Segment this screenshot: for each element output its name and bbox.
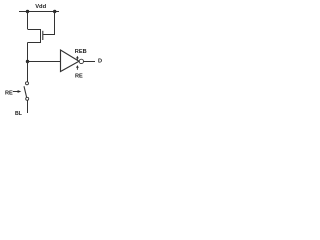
wire Vdd to transistor source: [27, 12, 29, 30]
inverter output bubble: [79, 59, 83, 63]
wire node to switch: [27, 62, 29, 82]
svg-text:D: D: [98, 59, 102, 65]
wire gate to Vdd: [43, 12, 54, 35]
junction dot left: [26, 10, 29, 13]
node junction dot: [26, 60, 29, 63]
switch S1 blade: [24, 86, 27, 97]
enable arrow RE head: [76, 65, 79, 68]
transistor M1 source/channel/drain: [28, 30, 41, 43]
enable arrow REB head: [76, 56, 79, 59]
svg-text:REB: REB: [75, 49, 87, 55]
svg-text:RE: RE: [5, 90, 13, 96]
RE control arrowhead: [18, 90, 22, 93]
tri-state inverter U1 triangle: [61, 50, 80, 72]
wire drain to node: [27, 43, 29, 62]
junction dot right: [53, 10, 56, 13]
wire switch to BL: [27, 100, 29, 113]
Vdd rail wire: [19, 11, 59, 13]
svg-text:RE: RE: [75, 74, 83, 80]
wire node to inverter input: [28, 61, 61, 63]
enable arrow RE shaft: [76, 67, 78, 69]
enable arrow REB shaft: [76, 58, 78, 60]
RE control arrow: [13, 91, 19, 93]
switch S1 bottom contact: [26, 97, 29, 100]
transistor M1 gate bar: [42, 31, 44, 40]
svg-text:Vdd: Vdd: [35, 4, 46, 10]
output wire: [84, 61, 96, 63]
svg-text:BL: BL: [15, 111, 23, 117]
switch S1 top contact: [26, 82, 29, 85]
